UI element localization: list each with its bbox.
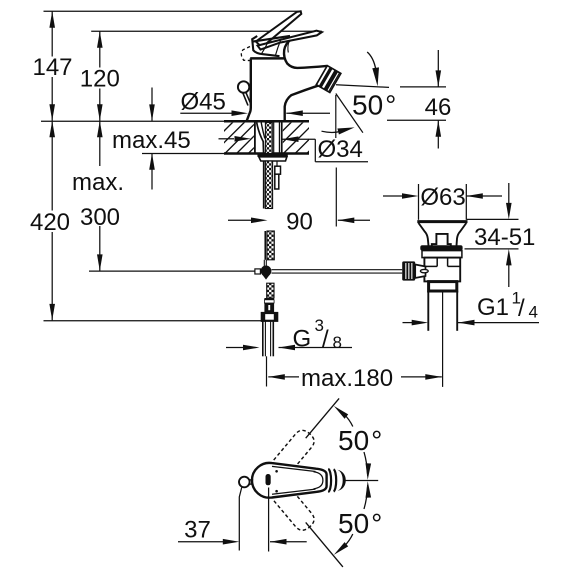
svg-text:300: 300	[80, 204, 120, 231]
svg-text:Ø63: Ø63	[420, 184, 465, 211]
svg-text:/: /	[322, 326, 329, 353]
svg-text:90: 90	[286, 209, 313, 236]
svg-text:50°: 50°	[352, 89, 396, 120]
svg-text:46: 46	[425, 94, 452, 121]
svg-text:8: 8	[333, 333, 342, 352]
svg-text:max.180: max.180	[301, 365, 393, 392]
svg-text:50°: 50°	[338, 425, 382, 456]
svg-text:/: /	[518, 295, 525, 322]
svg-text:Ø45: Ø45	[181, 89, 226, 116]
svg-text:37: 37	[184, 517, 211, 544]
svg-text:4: 4	[529, 303, 538, 322]
svg-text:120: 120	[80, 66, 120, 93]
svg-text:G1: G1	[477, 294, 509, 321]
svg-text:34-51: 34-51	[474, 224, 535, 251]
svg-text:Ø34: Ø34	[318, 136, 363, 163]
svg-text:420: 420	[30, 209, 70, 236]
svg-text:max.: max.	[72, 169, 124, 196]
svg-text:G: G	[293, 325, 312, 352]
svg-text:50°: 50°	[338, 508, 382, 539]
svg-text:max.45: max.45	[112, 127, 191, 154]
svg-text:147: 147	[32, 54, 72, 81]
